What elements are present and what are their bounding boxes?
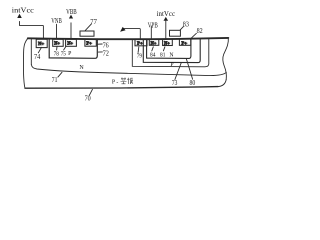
svg-text:79: 79 (137, 53, 143, 60)
svg-text:77: 77 (90, 19, 97, 26)
substrate outline bottom (25, 87, 218, 89)
svg-text:P: P (170, 62, 173, 68)
svg-text:80: 80 (190, 80, 196, 87)
leader line for 78 (56, 47, 58, 50)
leader line for 84 (152, 47, 154, 51)
svg-text:VNB: VNB (51, 18, 62, 25)
gate electrode 83 (170, 30, 181, 36)
svg-text:P+: P+ (86, 40, 92, 45)
deep N-well left edge (30, 39, 32, 65)
N+ box 84 (box F) (149, 39, 159, 45)
svg-text:P -: P - (112, 79, 118, 85)
surface line (28, 38, 229, 39)
svg-text:75: 75 (61, 50, 66, 57)
arrow intVcc left (17, 14, 22, 18)
leader line for 75 (64, 47, 66, 50)
svg-text:P: P (68, 51, 71, 57)
P-well (left group) rectangle (49, 39, 97, 59)
svg-text:N+: N+ (38, 41, 45, 46)
leader line for 80 (186, 59, 192, 80)
svg-text:N+: N+ (151, 40, 157, 45)
glyph 基 (121, 78, 127, 84)
svg-text:N+: N+ (54, 41, 60, 46)
substrate outline bottom-right rounded corner (218, 80, 226, 87)
svg-text:83: 83 (183, 21, 190, 28)
N+ box 74 (box A) (36, 39, 47, 47)
substrate outline left edge (23, 38, 27, 88)
leader dash for 76 (98, 43, 102, 45)
svg-text:78: 78 (54, 50, 59, 57)
box E wire with arrow to the left (124, 29, 141, 39)
intVcc wire (right) (165, 21, 167, 39)
svg-text:N: N (169, 53, 174, 59)
leader line for 74 (38, 47, 41, 53)
N+ box 81 (box G) (163, 39, 173, 46)
svg-text:intVcc: intVcc (12, 6, 34, 14)
P+ box 76 (box D) (85, 39, 96, 46)
gate electrode 77 (80, 31, 94, 36)
leader line for 77 (85, 24, 91, 31)
svg-text:74: 74 (34, 54, 41, 61)
svg-text:N: N (79, 65, 84, 71)
P+ box 82 (box H) (179, 39, 190, 45)
svg-text:P+: P+ (137, 41, 143, 46)
right group inner N region rectangle (143, 39, 200, 62)
arrow on box E wire pointing down-left (120, 27, 126, 32)
svg-text:76: 76 (103, 43, 110, 50)
leader line for 71 (58, 72, 62, 77)
svg-text:intVcc: intVcc (157, 10, 176, 18)
svg-text:71: 71 (52, 77, 58, 84)
leader dash for 72 (98, 51, 102, 53)
VNB wire (56, 24, 58, 39)
svg-text:72: 72 (103, 51, 110, 58)
deep N-well sagging bottom line (31, 64, 226, 75)
right group inner P pocket rectangle (147, 39, 191, 58)
glyph 板 (127, 78, 133, 84)
svg-text:82: 82 (197, 28, 204, 35)
N+ box 78 (box B) (53, 39, 64, 46)
leader line for 73 (175, 63, 181, 80)
leader line for 79 (137, 47, 140, 52)
svg-text:70: 70 (85, 96, 92, 103)
svg-text:N+: N+ (67, 41, 73, 46)
svg-text:81: 81 (160, 51, 165, 58)
leader line for 81 (163, 47, 165, 51)
arrow intVcc right (164, 17, 169, 21)
leader line for 83 (180, 27, 183, 30)
svg-text:VPB: VPB (148, 22, 158, 29)
N+ box 75 (box C) (66, 39, 77, 46)
arrow VBB (69, 15, 73, 19)
right group outer P region rectangle (132, 39, 209, 67)
svg-text:84: 84 (150, 51, 156, 58)
svg-text:P+: P+ (182, 40, 188, 45)
leader line for 82 (191, 33, 197, 38)
VPB wire (150, 26, 152, 39)
leader line for 70 (89, 89, 92, 95)
svg-text:N+: N+ (164, 40, 170, 45)
substrate outline right wavy edge (223, 38, 229, 80)
intVcc wire (left) (20, 22, 44, 39)
P+ box 79 (box E) (135, 39, 147, 46)
svg-text:VBB: VBB (66, 8, 77, 16)
svg-text:73: 73 (172, 80, 178, 87)
VBB wire (70, 23, 72, 39)
